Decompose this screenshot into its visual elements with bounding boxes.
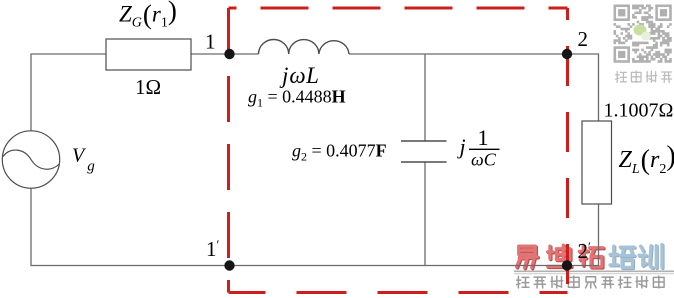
svg-text:g2 = 0.4077F: g2 = 0.4077F <box>292 141 387 164</box>
svg-text:1: 1 <box>205 30 216 54</box>
svg-text:ωC: ωC <box>471 150 497 170</box>
svg-text:1: 1 <box>478 125 489 150</box>
svg-text:jωL: jωL <box>279 63 319 88</box>
svg-text:g1 = 0.4488H: g1 = 0.4488H <box>248 87 346 110</box>
svg-text:1Ω: 1Ω <box>135 75 161 99</box>
svg-text:1.1007Ω: 1.1007Ω <box>604 100 674 122</box>
svg-text:ZL(r2): ZL(r2) <box>619 141 674 177</box>
svg-text:2: 2 <box>578 27 589 51</box>
